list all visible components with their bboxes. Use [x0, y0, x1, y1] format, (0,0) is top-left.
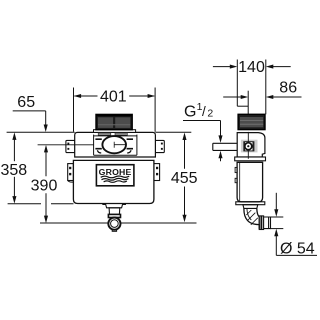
- svg-text:390: 390: [31, 178, 58, 195]
- outlet connector circle: [108, 218, 120, 230]
- dim 390 line: [45, 151, 47, 177]
- dim 401 extension lines: [73, 88, 75, 132]
- outlet neck: [109, 208, 120, 215]
- dim 86 arrows: [223, 96, 241, 98]
- svg-text:358: 358: [0, 162, 27, 179]
- lower rail bracket right: [154, 164, 160, 181]
- supply pipe vertical: [247, 91, 249, 115]
- side body inner line: [239, 162, 241, 201]
- svg-text:GROHE: GROHE: [99, 167, 132, 177]
- top reference line right: [155, 131, 191, 133]
- G half pocket: [241, 140, 258, 153]
- side outlet neck: [243, 205, 258, 209]
- side outlet flange: [236, 202, 265, 205]
- tank body: [73, 160, 154, 203]
- svg-text:Ø 54: Ø 54: [280, 240, 315, 257]
- cistern housing (upper section): [75, 132, 156, 157]
- svg-text:140: 140: [238, 59, 265, 76]
- flush valve clip right: [127, 139, 133, 149]
- top reference line left: [7, 131, 75, 133]
- dim 358 bottom tick: [8, 203, 41, 205]
- pipe end: [264, 217, 271, 229]
- side actuator box (dark): [238, 114, 265, 129]
- dim 140 extension lines: [236, 60, 238, 107]
- actuator box (dark): [96, 114, 132, 129]
- supply stub pipe: [213, 143, 237, 150]
- side body: [237, 162, 263, 202]
- actuator support block right: [115, 133, 127, 135]
- side housing: [237, 133, 265, 157]
- elbow coupling: [259, 216, 261, 230]
- flush bend ellipse: [102, 136, 126, 153]
- dim 455 line: [184, 139, 186, 169]
- svg-text:G: G: [184, 103, 196, 120]
- frame step line: [237, 105, 248, 107]
- rail hooks: [235, 167, 237, 172]
- svg-text:401: 401: [100, 89, 127, 106]
- svg-text:2: 2: [207, 107, 213, 119]
- svg-text:455: 455: [171, 170, 198, 187]
- ellipse centre mark: [114, 142, 126, 148]
- outlet collar: [108, 214, 120, 217]
- dim 358 line: [13, 139, 15, 161]
- upper fixing tab right: [155, 140, 164, 152]
- G half leader: [183, 120, 221, 122]
- supply centre vertical: [247, 132, 249, 142]
- svg-text:65: 65: [17, 94, 35, 111]
- upper fixing tab left: [66, 140, 75, 152]
- GROHE logo waves: [101, 176, 129, 182]
- outlet elbow: [244, 208, 259, 228]
- dim 401 lines: [74, 95, 97, 97]
- dim 65 leader: [13, 110, 46, 112]
- supply leader line: [38, 144, 94, 146]
- elbow inner wall arc: [247, 208, 251, 220]
- actuator plate strip: [94, 130, 136, 133]
- svg-text:/: /: [202, 104, 206, 119]
- inner valve box: [94, 135, 137, 156]
- dim 140 arrows: [213, 66, 231, 68]
- G half union box: [244, 142, 254, 151]
- flush valve clip left: [95, 139, 101, 149]
- actuator support block left: [98, 133, 111, 135]
- side housing flange: [235, 157, 266, 161]
- svg-text:86: 86: [279, 80, 297, 97]
- outlet bottom notch: [112, 230, 116, 232]
- outlet flange: [103, 204, 126, 208]
- floor reference line: [40, 222, 108, 224]
- G half circle: [245, 143, 252, 150]
- dim dia54: [275, 193, 277, 211]
- elbow hatch: [246, 210, 257, 225]
- GROHE logo box: [96, 165, 133, 186]
- lower rail bracket left: [68, 164, 76, 183]
